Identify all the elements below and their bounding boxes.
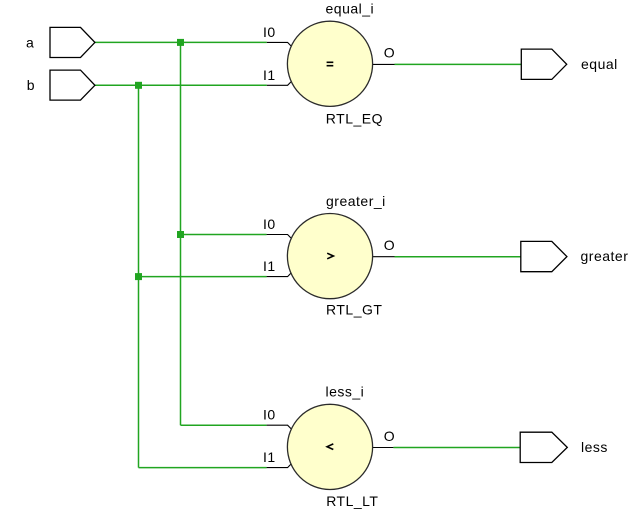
svg-text:RTL_GT: RTL_GT xyxy=(326,301,382,317)
junction net a at greater I0 branch xyxy=(177,231,184,238)
wire net b vertical xyxy=(138,85,140,467)
svg-text:greater_i: greater_i xyxy=(326,193,386,209)
svg-text:equal_i: equal_i xyxy=(326,1,375,17)
svg-text:I1: I1 xyxy=(263,258,276,274)
svg-text:RTL_LT: RTL_LT xyxy=(326,493,378,509)
wire net b horizontal xyxy=(95,84,267,86)
svg-text:O: O xyxy=(384,45,395,61)
wire equal output xyxy=(395,63,522,65)
output port greater xyxy=(521,241,567,271)
wire net a branch to greater I0 xyxy=(181,234,267,236)
svg-text:RTL_EQ: RTL_EQ xyxy=(326,110,383,126)
svg-text:I0: I0 xyxy=(263,407,276,423)
svg-text:I0: I0 xyxy=(263,24,276,40)
pin stub greater O xyxy=(373,256,395,258)
comparator U3 less_i body xyxy=(287,404,372,489)
wire net a branch to less I0 xyxy=(181,424,267,426)
pin stub greater I1 xyxy=(267,273,292,277)
comparator U1 equal_i body xyxy=(287,21,372,106)
svg-text:I1: I1 xyxy=(263,449,276,465)
junction net a at wire a xyxy=(177,39,184,46)
svg-text:greater: greater xyxy=(581,248,629,264)
svg-text:a: a xyxy=(26,34,34,50)
pin stub equal I0 xyxy=(267,42,291,46)
junction net b at wire b xyxy=(135,82,142,89)
wire net b branch to less I1 xyxy=(139,467,267,469)
svg-text:I1: I1 xyxy=(263,67,276,83)
svg-text:O: O xyxy=(384,428,395,444)
svg-text:less_i: less_i xyxy=(326,383,365,399)
wire net a horizontal xyxy=(95,41,267,43)
svg-text:I0: I0 xyxy=(263,216,276,232)
input port b xyxy=(50,70,95,100)
svg-text:b: b xyxy=(27,77,35,93)
pin stub less O xyxy=(373,447,394,449)
pin stub equal I1 xyxy=(267,82,291,86)
pin stub equal O xyxy=(373,63,395,65)
operator > of greater_i xyxy=(327,253,333,259)
svg-text:equal: equal xyxy=(581,56,618,72)
svg-text:less: less xyxy=(581,439,608,455)
pin stub less I0 xyxy=(267,425,292,429)
wire net b branch to greater I1 xyxy=(139,276,267,278)
operator < of less_i xyxy=(327,444,333,450)
output port equal xyxy=(521,49,566,79)
comparator U2 greater_i body xyxy=(287,214,372,299)
svg-text:O: O xyxy=(384,237,395,253)
pin stub greater I0 xyxy=(267,235,292,239)
wire net a vertical xyxy=(180,42,182,425)
pin stub less I1 xyxy=(267,464,292,468)
output port less xyxy=(520,432,567,462)
input port a xyxy=(50,27,95,57)
wire greater output xyxy=(395,256,521,258)
junction net b at greater I1 branch xyxy=(135,273,142,280)
operator = of equal_i xyxy=(327,62,334,64)
wire less output xyxy=(393,447,520,449)
